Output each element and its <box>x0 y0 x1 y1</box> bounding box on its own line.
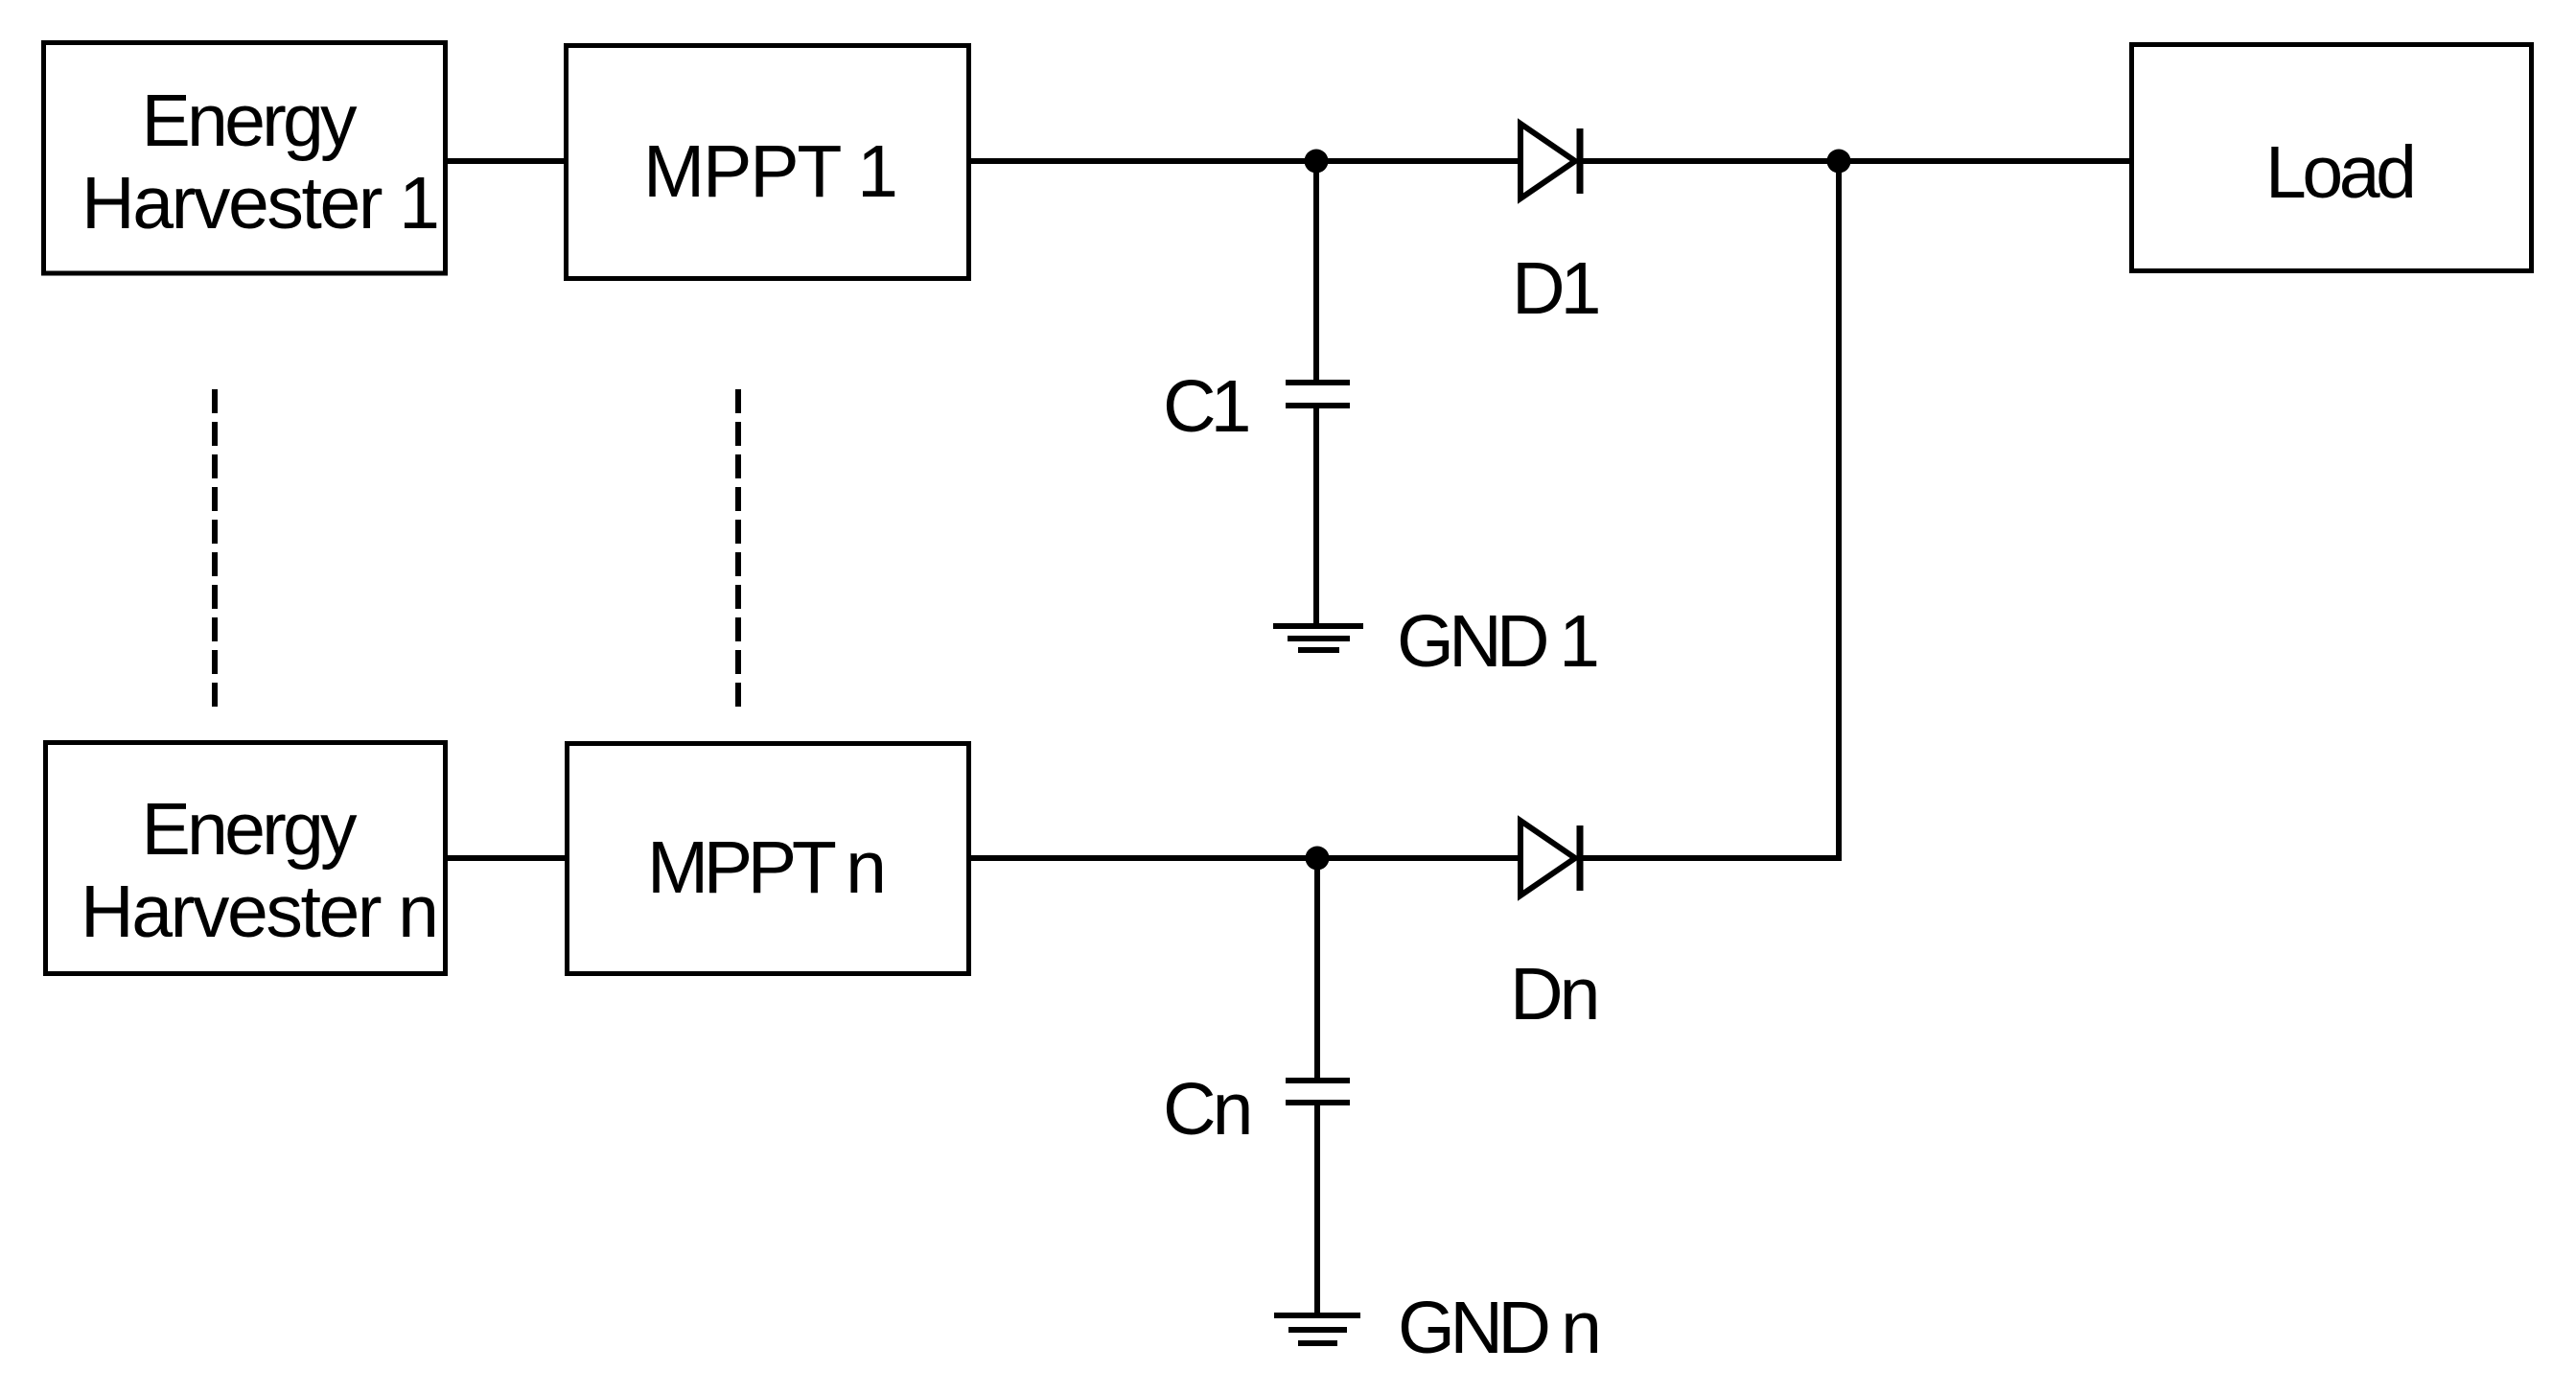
svg-text:Cn: Cn <box>1163 1068 1249 1151</box>
svg-text:D1: D1 <box>1512 247 1599 330</box>
svg-text:Energy: Energy <box>142 80 359 162</box>
svg-text:MPPT n: MPPT n <box>647 826 887 909</box>
svg-text:Dn: Dn <box>1510 953 1596 1035</box>
svg-text:Harvester n: Harvester n <box>81 871 439 953</box>
svg-text:GND n: GND n <box>1398 1287 1602 1369</box>
svg-text:MPPT 1: MPPT 1 <box>643 130 898 213</box>
svg-text:C1: C1 <box>1163 365 1249 448</box>
svg-text:Harvester 1: Harvester 1 <box>81 162 440 244</box>
svg-text:Energy: Energy <box>142 788 359 871</box>
svg-text:GND 1: GND 1 <box>1397 600 1600 683</box>
svg-text:Load: Load <box>2265 131 2417 214</box>
